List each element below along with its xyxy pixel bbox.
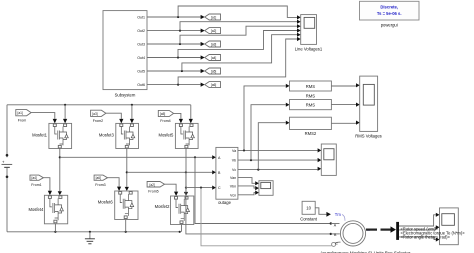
wire Vbn to small scope [238, 186, 259, 190]
goto tag [a3] [205, 41, 221, 47]
svg-text:[a3]: [a3] [211, 42, 216, 46]
svg-text:RMS Voltages: RMS Voltages [355, 133, 382, 138]
goto tag [a2] [205, 28, 221, 34]
wire Out6 to goto tag a6 [147, 83, 205, 87]
wire RMS to RMS Voltages scope input1 [331, 83, 359, 87]
wire branch row1 to scope input1 [178, 6, 301, 20]
transistor Mosfet3 [99, 123, 139, 148]
svg-text:From3: From3 [95, 183, 105, 187]
goto tag [a6] [205, 82, 221, 88]
bus signal m to bus selector [366, 226, 396, 232]
block RMS1 [290, 100, 332, 110]
wire Out1 to goto tag a1 [147, 15, 205, 19]
wire Mosfet2 source to bus [179, 225, 182, 233]
svg-text:From1: From1 [31, 183, 41, 187]
from tag [a5] [158, 110, 173, 123]
svg-text:Line Voltages1: Line Voltages1 [295, 47, 323, 52]
from tag [a1] [16, 110, 31, 123]
svg-text:RMS2: RMS2 [305, 131, 317, 136]
svg-text:Mosfet3: Mosfet3 [99, 132, 115, 137]
wire branch row6 to scope input6 [178, 37, 301, 85]
wire rail drop to Mosfet5 drain [189, 105, 193, 124]
wire Van to small scope [238, 178, 259, 186]
wire from tag a2 to Mosfet2 gate [165, 184, 179, 196]
wire bus selector out3 to scope input3 [399, 237, 440, 242]
wire from tag a4 to Mosfet4 gate [43, 178, 52, 196]
wire branch row5 to scope input5 [182, 33, 301, 71]
goto tag [a1] [205, 14, 221, 20]
wire phase B to outage input B [127, 170, 216, 174]
scope (rotor signals) [440, 208, 459, 245]
svg-text:[a4]: [a4] [32, 176, 37, 180]
svg-text:Tm: Tm [335, 212, 342, 217]
svg-text:Out2: Out2 [137, 29, 145, 33]
wire Vc to scope and RMS riser [238, 167, 321, 171]
goto tag [a4] [205, 55, 221, 61]
svg-text:Mosfet4: Mosfet4 [28, 207, 44, 212]
wire Out3 to goto tag a3 [147, 42, 205, 46]
bus selector [396, 222, 399, 240]
svg-text:[a1]: [a1] [211, 15, 216, 19]
svg-text:RMS: RMS [306, 94, 316, 99]
svg-text:Mosfet2: Mosfet2 [155, 204, 171, 209]
wire branch row2 to scope input2 [180, 20, 301, 31]
svg-text:A: A [334, 224, 337, 228]
wire Mosfet4 source to bus [54, 224, 56, 232]
wire phase C down to machine input C [201, 188, 341, 247]
wire from tag a5 to Mosfet5 gate [174, 113, 183, 123]
svg-text:Constant: Constant [300, 216, 318, 221]
machine (asynchronous machine) [320, 221, 385, 253]
powergui block [360, 1, 420, 27]
wire phase C to outage input C [186, 186, 216, 190]
wire Out2 to goto tag a2 [147, 29, 205, 33]
wire branch row4 to scope input4 [178, 28, 301, 57]
wire rail drop to Mosfet3 drain [130, 105, 134, 124]
svg-text:[a3]: [a3] [92, 112, 97, 116]
measurement subsystem outage [216, 147, 238, 204]
wire phase B down to machine input B [186, 172, 340, 235]
wire bus selector out1 to scope input1 [399, 213, 440, 226]
svg-text:Va: Va [232, 149, 236, 153]
block RMS2 [290, 117, 332, 136]
transistor Mosfet1 [32, 123, 72, 148]
svg-text:[a5]: [a5] [211, 69, 216, 73]
svg-text:<Rotor angle thetam (rad)>: <Rotor angle thetam (rad)> [401, 235, 451, 240]
from tag [a6] [94, 175, 107, 187]
DC positive rail wire [7, 104, 191, 106]
svg-text:Out3: Out3 [137, 43, 145, 47]
svg-text:[a1]: [a1] [18, 111, 23, 115]
svg-text:Out1: Out1 [137, 16, 145, 20]
constant block 10 [300, 201, 318, 221]
left DC rail wire [6, 105, 8, 232]
svg-text:RMS: RMS [306, 103, 316, 108]
svg-text:[a6]: [a6] [211, 83, 216, 87]
wire phase A to outage input A [60, 155, 216, 159]
svg-text:+: + [2, 159, 5, 164]
svg-text:[a5]: [a5] [160, 112, 165, 116]
svg-text:Van: Van [230, 176, 236, 180]
wire bus selector out2 to scope input2 [399, 225, 440, 230]
wire constant to machine Tm [315, 208, 345, 221]
svg-text:C: C [335, 241, 338, 245]
wire branch row3 to scope input3 [180, 24, 301, 44]
block RMS [290, 81, 332, 99]
svg-text:Mosfet1: Mosfet1 [32, 132, 48, 137]
svg-text:From: From [18, 119, 26, 123]
svg-text:Out6: Out6 [137, 83, 145, 87]
scope RMS Voltages [355, 76, 382, 138]
wire from tag a6 to Mosfet6 gate [108, 178, 122, 191]
wire leg B (Mosfet3 source to Mosfet6 drain) [125, 149, 129, 192]
svg-text:From2: From2 [93, 119, 103, 123]
DC negative bus wire [7, 231, 180, 233]
wire leg A (Mosfet1 source to Mosfet4 drain) [58, 149, 62, 196]
scope (phase-neutral voltages) [259, 181, 273, 196]
svg-text:Mosfet6: Mosfet6 [98, 199, 114, 204]
svg-text:Vb: Vb [232, 159, 236, 163]
svg-text:Vc: Vc [232, 168, 236, 172]
riser Vc to RMS2 [258, 121, 289, 170]
svg-text:[a2]: [a2] [150, 183, 155, 187]
svg-text:C: C [218, 186, 221, 190]
svg-text:outage: outage [218, 200, 231, 205]
svg-text:Vcn: Vcn [230, 193, 236, 197]
svg-text:Ts = 5e-06 s.: Ts = 5e-06 s. [377, 11, 402, 16]
DC voltage source V1 [2, 154, 13, 178]
riser Va to RMS [244, 84, 290, 151]
transistor Mosfet6 [98, 191, 138, 220]
wire phase A down to machine input A [195, 157, 340, 224]
from tag [a3] [91, 110, 106, 123]
wire Va to scope and RMS riser [238, 148, 321, 152]
svg-text:RMS: RMS [306, 84, 316, 89]
svg-text:Out4: Out4 [137, 56, 145, 60]
wire Vcn to small scope [238, 191, 259, 195]
wire leg C (Mosfet5 source to Mosfet2 drain) [184, 149, 188, 197]
transistor Mosfet5 [158, 123, 198, 148]
wire rail drop to Mosfet1 drain [63, 105, 67, 124]
svg-text:Vbn: Vbn [230, 185, 236, 189]
subsystem U1 (gate pulse generator) [103, 11, 147, 90]
svg-text:Discrete,: Discrete, [380, 5, 398, 10]
from tag [a4] [30, 175, 43, 187]
from tag [a2] [147, 182, 164, 194]
svg-text:Out5: Out5 [137, 70, 145, 74]
riser Vb to RMS1 [251, 103, 290, 161]
wire RMS2 to RMS Voltages scope input3 [331, 121, 359, 125]
wire from tag a3 to Mosfet3 gate [106, 113, 124, 123]
goto tag [a5] [205, 68, 221, 74]
svg-text:powergui: powergui [381, 23, 398, 28]
scope Line Voltages1 [295, 15, 323, 52]
wire Mosfet6 source to bus [125, 220, 127, 232]
wire RMS1 to RMS Voltages scope input2 [331, 103, 359, 107]
svg-text:From4: From4 [160, 119, 170, 123]
svg-text:From5: From5 [148, 190, 158, 194]
svg-text:Mosfet5: Mosfet5 [158, 132, 174, 137]
wire Out5 to goto tag a5 [147, 69, 205, 73]
wire from tag a1 to Mosfet1 gate [31, 113, 57, 124]
ground [85, 232, 95, 244]
transistor Mosfet2 [155, 196, 194, 225]
scope (Vabc) [321, 144, 336, 175]
svg-text:10: 10 [306, 206, 311, 211]
svg-text:[a6]: [a6] [96, 176, 101, 180]
transistor Mosfet4 [28, 195, 67, 224]
wire Out4 to goto tag a4 [147, 55, 205, 59]
subsystem label [115, 16, 145, 98]
svg-text:[a2]: [a2] [211, 29, 216, 33]
svg-text:[a4]: [a4] [211, 56, 216, 60]
wire Vb to scope and RMS riser [238, 158, 321, 162]
svg-text:Subsystem: Subsystem [115, 93, 136, 98]
